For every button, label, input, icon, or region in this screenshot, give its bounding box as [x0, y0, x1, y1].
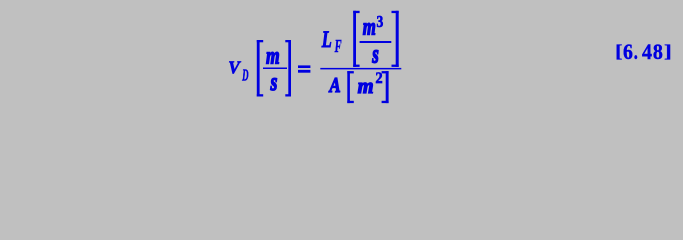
left bracket of [m2]	[347, 71, 354, 103]
fraction bar of m/s	[263, 68, 287, 70]
right bracket of [m2]	[382, 71, 389, 103]
variable L	[321, 28, 332, 53]
svg-text:V: V	[228, 57, 241, 77]
svg-text:8: 8	[653, 39, 663, 64]
svg-text:D: D	[242, 65, 249, 84]
svg-text:]: ]	[664, 40, 672, 61]
unit s of [m/s]	[270, 68, 278, 96]
subscript F	[334, 38, 342, 58]
svg-text:F: F	[334, 38, 342, 58]
right bracket of [m/s]	[285, 40, 291, 97]
main fraction bar	[320, 68, 401, 70]
svg-text:6: 6	[623, 40, 633, 64]
svg-text:m: m	[363, 15, 376, 40]
left bracket of [m/s]	[257, 40, 263, 97]
svg-text:m: m	[266, 42, 280, 69]
unit m of [m2]	[358, 73, 374, 98]
svg-text:[: [	[615, 42, 622, 62]
svg-text:3: 3	[377, 13, 384, 32]
unit s of [m3/s]	[372, 39, 379, 69]
fraction bar of m3/s	[360, 41, 392, 43]
variable V	[228, 57, 241, 77]
svg-text:s: s	[270, 68, 278, 96]
unit m of [m/s]	[266, 42, 280, 69]
unit m of [m3/s]	[363, 15, 376, 40]
svg-text:A: A	[329, 75, 341, 98]
svg-text:m: m	[358, 73, 374, 98]
svg-text:L: L	[321, 28, 332, 53]
right bracket of [m3/s]	[392, 11, 399, 67]
svg-text:4: 4	[642, 39, 652, 64]
variable A	[329, 75, 341, 98]
left bracket of [m3/s]	[353, 11, 359, 67]
svg-text:s: s	[372, 39, 379, 69]
svg-text:.: .	[634, 41, 638, 65]
superscript 2	[375, 70, 382, 88]
equation number [6.48]	[615, 39, 672, 64]
superscript 3	[377, 13, 384, 32]
equals sign	[298, 65, 310, 72]
subscript D	[242, 65, 249, 84]
